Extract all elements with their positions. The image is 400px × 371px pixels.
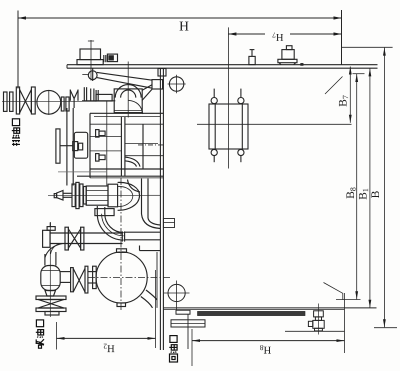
dome outlet nozzle xyxy=(142,85,152,90)
down pipe to wall vertical inner xyxy=(147,179,149,219)
drain end flange pair xyxy=(4,92,8,111)
big pump circle xyxy=(96,252,147,303)
bottom fitting circle with cross xyxy=(168,284,185,301)
extension line H8 left xyxy=(191,329,193,366)
filter bolt bottom-left xyxy=(211,149,217,155)
gear block top xyxy=(90,112,163,114)
pump dome housing xyxy=(114,89,142,113)
gear block dash centerline xyxy=(138,144,163,146)
pipe end valve box xyxy=(43,230,50,247)
big pump top tab xyxy=(117,249,127,253)
label xiyoukou char you xyxy=(36,330,44,338)
B8 top tick xyxy=(353,73,365,75)
suction valve flanges xyxy=(71,268,74,292)
wall bracket xyxy=(163,219,174,228)
wall top box xyxy=(158,69,166,77)
valve bonnet bars xyxy=(66,108,68,186)
dimension line H7 xyxy=(228,33,265,35)
extension line H2 left xyxy=(56,322,58,350)
rail pump head base xyxy=(278,59,297,62)
label huiyoukou char hui xyxy=(170,354,178,362)
pipe valve N xyxy=(65,227,68,250)
tank right wall xyxy=(159,68,161,350)
discharge elbow xyxy=(97,214,123,240)
pump volute xyxy=(118,182,140,210)
lever pivot circle xyxy=(88,71,97,80)
curve below dome xyxy=(129,100,143,114)
dimension line H xyxy=(18,17,342,19)
grease nipple xyxy=(54,194,56,198)
dimension line H2 xyxy=(57,337,156,339)
drain valve nut xyxy=(314,311,324,317)
drain train centerline xyxy=(2,100,97,102)
tank bottom lines xyxy=(163,307,376,309)
drain pump circle xyxy=(37,90,61,114)
gray line xyxy=(58,171,107,173)
down pipe xyxy=(44,254,46,266)
bolt lower xyxy=(96,154,99,162)
pipe stub circle to wall xyxy=(139,246,141,251)
label B8 (rotated -90) xyxy=(346,187,355,198)
side bracket cylinder xyxy=(73,142,78,151)
label H7 (rotated 180) xyxy=(272,32,283,40)
flange plate below pump xyxy=(95,209,114,216)
rail pump head body xyxy=(282,50,294,60)
drain gate valve xyxy=(16,87,19,114)
down pipe to wall vertical outer xyxy=(141,179,143,215)
return port flange xyxy=(171,320,205,327)
side bracket body xyxy=(74,132,87,158)
motor side connector xyxy=(103,55,105,62)
label paiyoukou (drain port) char kou xyxy=(12,119,19,126)
suction pipe end xyxy=(45,312,59,316)
return port pipe xyxy=(187,314,189,349)
drain valve neck xyxy=(315,317,321,321)
extension line H left xyxy=(17,11,19,89)
valve handwheel M xyxy=(69,90,71,101)
filter bolt top-right xyxy=(238,98,244,104)
label B7 (rotated -90) xyxy=(339,95,348,106)
motor base plate xyxy=(77,60,103,65)
gear block left edge xyxy=(89,113,91,178)
B top datum line xyxy=(342,46,393,48)
label H2 (rotated 180) xyxy=(104,344,115,352)
dimension line B1 xyxy=(369,68,371,307)
oil level centerline xyxy=(197,123,352,125)
label paiyoukou char you xyxy=(12,128,20,136)
big pump bottom tab xyxy=(117,303,126,307)
coupling flanges xyxy=(61,97,64,111)
hanger circle with cross xyxy=(169,77,183,91)
pipe elbow to wall inner xyxy=(148,218,160,225)
B bottom tick xyxy=(374,327,397,329)
below ball reducer xyxy=(45,291,56,297)
dimension line B8 xyxy=(356,74,358,299)
pipe elbow to wall outer xyxy=(142,214,161,229)
filter bolt top-left xyxy=(211,98,217,104)
extension line H7 left / filter centerline xyxy=(227,27,229,168)
extension line H/H7 right xyxy=(341,10,343,65)
gear block inner wall xyxy=(120,117,122,176)
side bracket stem xyxy=(60,145,73,147)
B8 bottom tick xyxy=(336,299,361,301)
dimension line H8 xyxy=(192,340,345,342)
label H xyxy=(180,22,189,31)
fin box xyxy=(96,94,112,101)
lever arms xyxy=(97,72,152,80)
pump body xyxy=(86,186,108,205)
wall stub line xyxy=(163,222,174,224)
label B (rotated -90) xyxy=(371,191,379,198)
label H8 (rotated 180) xyxy=(260,345,271,353)
dome centerline xyxy=(127,62,129,118)
side bracket plate xyxy=(56,129,60,163)
label xiyoukou (suction port) char kou xyxy=(36,320,43,327)
label xiyoukou char xi xyxy=(36,339,44,348)
block top fins xyxy=(83,87,85,101)
block outlet elbow small xyxy=(128,180,141,193)
drain valve body xyxy=(313,320,324,328)
extension line H8 right xyxy=(344,293,346,353)
filter stems xyxy=(213,89,215,98)
filter bolt bottom-right xyxy=(238,149,244,155)
lever end box xyxy=(152,80,163,89)
suspended filter body xyxy=(209,104,248,149)
suction ball body xyxy=(41,266,60,291)
motor terminal box xyxy=(80,49,101,60)
foot valve cones xyxy=(38,300,64,304)
label B1 (rotated -90) xyxy=(359,189,368,200)
label paiyoukou char pai xyxy=(12,136,20,145)
coupling stack xyxy=(72,184,75,207)
drain valve bottom cap xyxy=(315,328,323,331)
gear block bottom xyxy=(90,168,163,170)
drain fitting baseline xyxy=(285,330,345,332)
shaft centerline stub to wall xyxy=(148,194,160,196)
foot valve top bar xyxy=(36,296,66,300)
outlet arcs to tank bottom xyxy=(141,297,153,308)
label huiyoukou (return port) char kou xyxy=(170,336,177,343)
suction stack centerline xyxy=(49,222,51,317)
return port top plate xyxy=(176,310,190,314)
foot valve bottom bar xyxy=(36,308,66,312)
extension line H2 right xyxy=(155,270,157,348)
elbow end flange xyxy=(121,231,123,241)
inner elbow pipe xyxy=(125,157,140,167)
bolt upper xyxy=(96,130,99,138)
horizontal pipe run xyxy=(50,232,123,234)
shaft centerline xyxy=(48,194,148,196)
dimension line B xyxy=(383,48,385,328)
rail stud fitting xyxy=(249,56,255,64)
top rail beam xyxy=(67,64,378,66)
leader bottom right xyxy=(324,283,343,300)
pipe to big pump xyxy=(88,271,96,273)
motor centerline xyxy=(90,40,92,81)
tank bottom hatched plate xyxy=(198,311,306,315)
ball outlet stubs xyxy=(60,271,70,273)
rail pump head knob xyxy=(286,46,292,50)
gear block sub-rect edge xyxy=(142,124,144,169)
gear block inner shelves xyxy=(90,123,121,125)
gear block centerline xyxy=(106,101,108,186)
dimension line B7 xyxy=(349,67,351,123)
label huiyoukou char you xyxy=(169,345,177,353)
drain valve centerline xyxy=(317,304,319,335)
drain valve side tab xyxy=(308,321,312,326)
leader top right xyxy=(325,77,343,95)
rail dot xyxy=(301,64,303,66)
